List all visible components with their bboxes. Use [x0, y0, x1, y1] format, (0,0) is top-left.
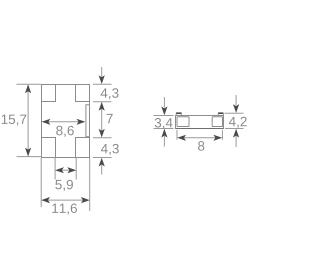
dimension 15,7 line	[27, 85, 29, 156]
dimension 8 line	[179, 137, 221, 139]
pad top-left	[42, 85, 56, 102]
component body outline (top view)	[42, 85, 90, 158]
dimension 5,9 extension line right	[75, 158, 77, 180]
dimension 11,6 extension line right	[89, 158, 91, 211]
label 15,7	[2, 115, 27, 126]
dimension 8 arrowhead left	[177, 135, 186, 141]
dimension 7 arrowhead up	[99, 102, 105, 111]
side view body bottom seating line	[176, 128, 224, 130]
dimension 3,4 extension line bottom	[154, 128, 174, 130]
dimension 4,2 extension line bottom	[225, 128, 244, 130]
dimension 11,6 arrowhead left	[41, 197, 50, 203]
side view top tab right	[218, 112, 224, 114]
pad bottom-left	[42, 138, 56, 158]
label 8	[198, 141, 204, 151]
side view top tab left	[176, 112, 182, 114]
dimension 8,6 arrowhead left	[42, 119, 51, 125]
dimension 8 extension line right	[221, 130, 223, 140]
dimension 5,9 arrowhead right	[67, 167, 76, 173]
dimension 4,3 top: arrow pointing down	[101, 67, 103, 78]
dimension 15,7 extension line top	[17, 83, 42, 85]
extension line at upper pad bottom	[93, 101, 112, 103]
label 4,3 top	[101, 88, 119, 99]
dimension 7 arrowhead down	[99, 129, 105, 138]
label 5,9	[55, 180, 73, 191]
dimension 8,6 arrowhead right	[77, 119, 86, 125]
dimension 4,3 bottom: arrow pointing up	[99, 158, 105, 167]
dimension 5,9 extension line left	[54, 158, 56, 180]
dimension 15,7 extension line bottom	[17, 156, 42, 158]
label 4,3 bottom	[101, 144, 119, 155]
label 4,2	[229, 117, 247, 128]
side view terminal cap left	[177, 117, 189, 127]
dimension 5,9 line	[62, 169, 70, 171]
pad bottom-right	[76, 138, 90, 158]
label 3,4	[155, 118, 173, 129]
dimension 8,6 line	[43, 121, 84, 123]
dimension 15,7 arrowhead up	[25, 84, 31, 93]
dimension 5,9 arrowhead left	[55, 167, 64, 173]
dimension 8 extension line left	[176, 130, 178, 140]
dimension 3,4 extension line top	[154, 115, 174, 117]
dimension 3,4 arrow pointing up	[161, 129, 167, 138]
label 11,6	[52, 203, 77, 214]
dimension 11,6 arrowhead right	[81, 197, 90, 203]
polarity notch on right edge	[86, 105, 90, 137]
side view body outline	[176, 116, 224, 129]
label 8,6	[56, 126, 74, 137]
dimension 11,6 extension line left	[40, 158, 42, 207]
dimension 11,6 line	[43, 199, 88, 201]
extension line at lower pad top	[93, 137, 112, 139]
side view terminal cap right	[212, 117, 222, 127]
extension line at body top edge	[93, 83, 112, 85]
dimension 4,2 extension line top	[225, 112, 244, 114]
dimension 4,2 arrow pointing down	[235, 95, 237, 106]
dimension 3,4 arrow pointing down	[163, 97, 165, 108]
dimension 7 line	[101, 109, 103, 131]
pad top-right	[76, 85, 90, 102]
dimension 15,7 arrowhead down	[25, 148, 31, 157]
dimension 4,2 arrow pointing up	[233, 129, 239, 138]
extension line at body bottom edge	[93, 157, 112, 159]
dimension 8 arrowhead right	[213, 135, 222, 141]
label 7	[107, 114, 113, 123]
